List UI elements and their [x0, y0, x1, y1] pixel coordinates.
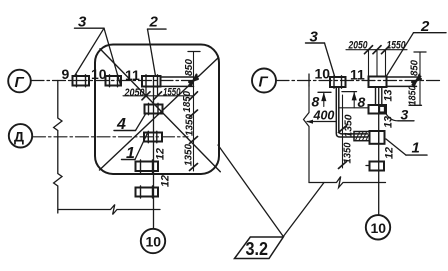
embed plate 9	[73, 75, 90, 87]
svg-text:1: 1	[412, 140, 420, 157]
svg-text:11: 11	[125, 67, 140, 83]
beam outline on axis Г (left view)	[161, 77, 194, 86]
embed plate 4	[145, 103, 163, 115]
svg-text:12: 12	[160, 175, 172, 187]
vertical dimension line (left view, x=193.5)	[193, 52, 195, 172]
callout label 3 (left)	[75, 14, 105, 31]
svg-text:11: 11	[350, 67, 365, 83]
svg-text:400: 400	[313, 109, 335, 123]
svg-text:13: 13	[383, 90, 395, 102]
bottom embed plate item 1 (right view)	[354, 131, 385, 144]
leader 3 to plate 10-11	[104, 28, 121, 85]
svg-text:1850: 1850	[407, 85, 419, 105]
channel verticals from plate 11 down	[376, 87, 382, 105]
leader 2 to plate 11	[387, 33, 414, 76]
axis line Д (dash-dot, left view)	[33, 136, 189, 138]
svg-text:1350: 1350	[342, 142, 354, 163]
leader 2 to column plate	[148, 29, 156, 76]
leader from panel to flag	[218, 145, 283, 237]
dim 8 left (right view)	[312, 92, 332, 109]
connecting line to middle plate	[339, 107, 369, 109]
svg-text:1350: 1350	[183, 144, 195, 166]
bottom boundary line with break (left view)	[58, 205, 160, 215]
svg-text:3.2: 3.2	[246, 239, 269, 259]
svg-text:10: 10	[371, 220, 387, 236]
svg-text:12: 12	[384, 147, 396, 159]
dim slash ticks (right view top)	[365, 46, 390, 54]
callout label 2 (left)	[148, 14, 167, 31]
bottom tick	[409, 104, 422, 106]
slab panel (rounded square)	[95, 45, 219, 175]
svg-text:850: 850	[409, 60, 421, 76]
grid circle Г (left)	[8, 70, 31, 93]
leader from right view to flag	[283, 183, 324, 237]
leader 3 to plate 10	[325, 43, 335, 76]
dim ticks at beam end / axis vertex (right view)	[412, 75, 421, 86]
svg-text:10: 10	[91, 66, 107, 82]
dim ticks at beam end / axis vertex	[189, 75, 198, 86]
dimension boundary tick at x=309	[308, 74, 310, 86]
dim slash ticks on vertical dim line	[190, 110, 198, 171]
svg-text:1550: 1550	[163, 87, 181, 99]
small embed plate (right view, below item 1)	[366, 162, 384, 171]
panel diagonal (BL-TR)	[100, 58, 219, 171]
grid bubble 10 (left view)	[141, 229, 165, 253]
callout label 1 (left view)	[122, 145, 136, 162]
top tick of vertical dim line	[188, 51, 200, 53]
svg-text:Д: Д	[14, 129, 24, 145]
column plate at axis crossing (left view)	[142, 75, 161, 88]
svg-text:10: 10	[146, 234, 162, 250]
leader 1 to plate	[386, 139, 406, 155]
callout label 3 (right view, to middle plate)	[386, 107, 415, 123]
svg-text:2: 2	[149, 14, 159, 31]
grid circle Д (left)	[9, 124, 32, 147]
dim 8 right (right view)	[342, 92, 366, 110]
axis line Г (dash-dot, right view)	[276, 80, 441, 82]
svg-text:1850: 1850	[181, 91, 193, 113]
svg-text:8: 8	[312, 94, 320, 110]
dim line 850/1850 (right view, x=420)	[419, 52, 421, 105]
embed plate 10 (right view)	[330, 76, 346, 88]
svg-text:13: 13	[383, 116, 395, 128]
callout label 3 (right view top)	[306, 29, 325, 46]
embed plate 11 (right view)	[369, 77, 387, 88]
svg-text:10: 10	[315, 66, 331, 82]
bottom boundary line with break (right view)	[309, 177, 386, 188]
dim line 1350 pair (right view)	[342, 95, 344, 168]
grid circle Г (right)	[252, 69, 276, 93]
dim line 2050/1550 (right view)	[346, 49, 407, 51]
detail flag 3.2 (parallelogram)	[235, 237, 284, 259]
extension lines from dim to plates	[369, 50, 386, 77]
svg-text:Г: Г	[259, 74, 269, 91]
svg-text:1350: 1350	[184, 114, 196, 136]
grid line 10 vertical (right view)	[378, 87, 380, 215]
dim 400 with underline arrow	[307, 109, 337, 124]
svg-text:1350: 1350	[343, 114, 355, 137]
dim slash ticks 1350 (right view)	[339, 126, 347, 169]
svg-text:12: 12	[155, 148, 167, 160]
leader 1 to plate at Д	[135, 134, 147, 160]
embed plate 10-11	[106, 75, 122, 87]
middle embed plate (right view)	[369, 105, 387, 114]
callout label 4	[114, 116, 136, 133]
embed plate on line 10 (middle lower)	[136, 160, 159, 173]
grid line 10 (vertical, left view)	[153, 77, 155, 229]
svg-text:9: 9	[62, 66, 70, 82]
beam outline on axis Г (right view)	[387, 77, 417, 86]
dim slash ticks on 2050/1550 line	[142, 92, 198, 100]
anchor extension lines below column plate	[146, 87, 158, 96]
channel end hatch	[356, 132, 370, 140]
svg-text:2050: 2050	[124, 87, 146, 99]
axis line Г (dash-dot, left view)	[31, 80, 194, 82]
embed plate on line 10 (bottom)	[136, 186, 159, 198]
leader 4 to plate	[136, 114, 146, 131]
callout label 1 (right view)	[406, 140, 427, 157]
svg-text:850: 850	[183, 59, 195, 76]
grid bubble 10 (right view)	[366, 215, 390, 239]
panel diagonal (TL-BR)	[100, 49, 220, 172]
leader 3 to plate 9	[75, 28, 105, 76]
vertical dimension line with break (x=309)	[304, 86, 310, 183]
top tick	[414, 51, 426, 53]
callout label 2 (right view top)	[414, 18, 447, 35]
boundary line with breaks (vertical, x=58)	[54, 81, 62, 214]
embed plate at axis Д	[144, 131, 162, 143]
channel member below plate 10 (L-shape)	[336, 88, 367, 138]
svg-text:Г: Г	[15, 74, 25, 91]
dim line 2050/1550 (left view)	[123, 95, 194, 97]
svg-text:3: 3	[401, 107, 409, 123]
